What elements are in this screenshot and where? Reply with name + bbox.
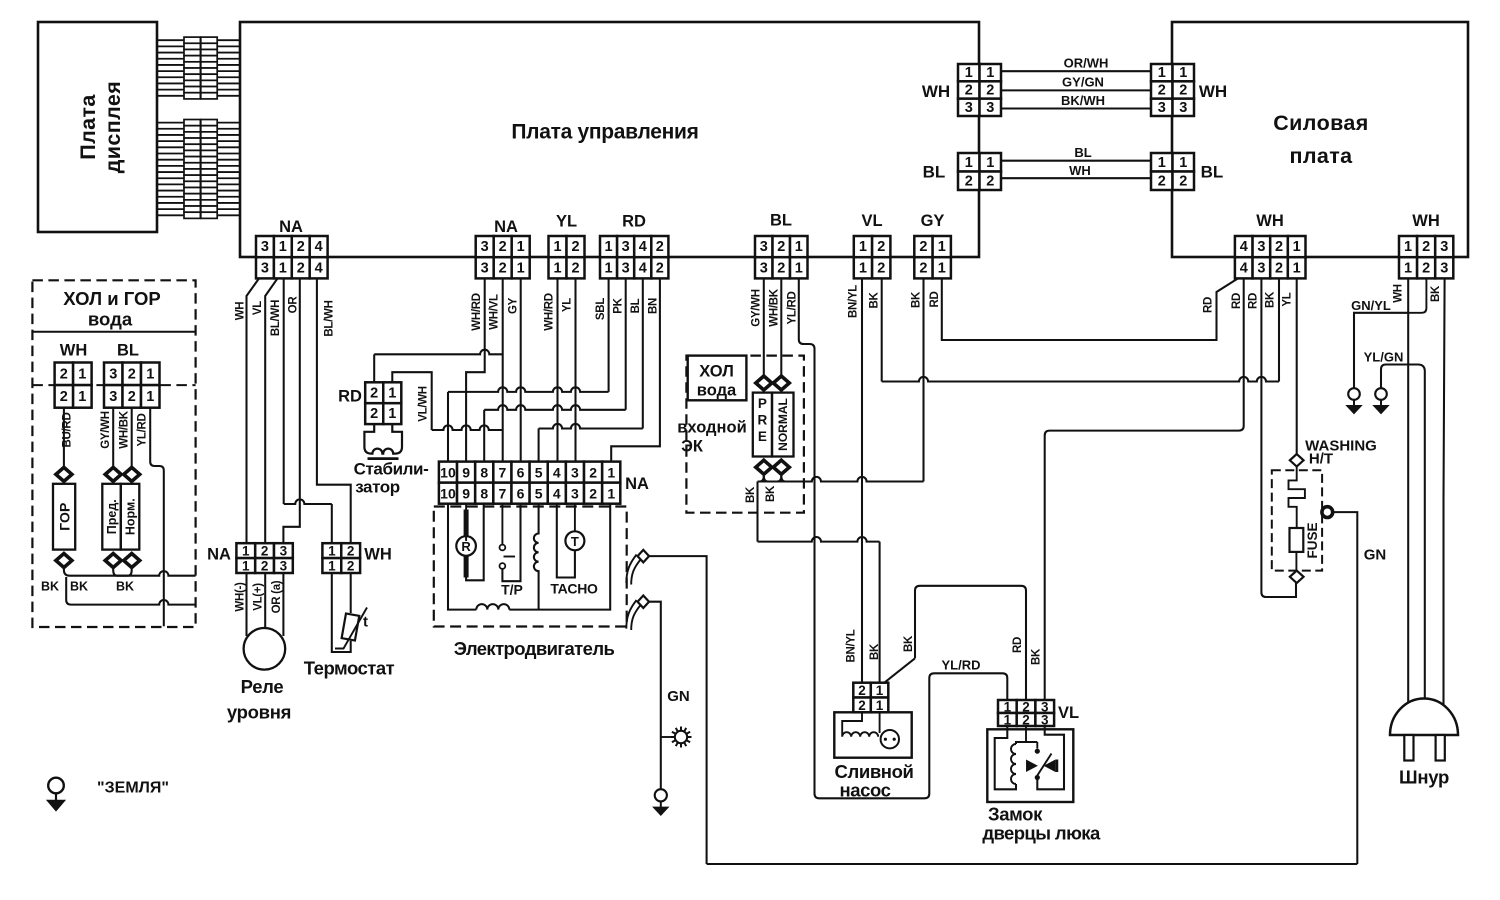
label BL wire bbox=[1074, 145, 1091, 160]
connector WH (control board right edge, 3pin) bbox=[958, 64, 1001, 116]
svg-text:SBL: SBL bbox=[595, 298, 607, 320]
svg-text:3: 3 bbox=[261, 260, 269, 276]
label YL wire bbox=[562, 298, 574, 312]
label RD diag bbox=[1203, 297, 1215, 313]
label PK wire bbox=[613, 297, 625, 313]
svg-text:WH: WH bbox=[364, 546, 392, 564]
svg-text:YL: YL bbox=[562, 298, 574, 312]
svg-text:NA: NA bbox=[279, 218, 303, 236]
label RD door bbox=[1012, 637, 1024, 653]
label GY/WH water bbox=[100, 411, 112, 448]
power board label bbox=[1273, 111, 1369, 168]
wire VL (NA1 pin1 to relay pin2) bbox=[265, 278, 277, 543]
svg-text:1: 1 bbox=[1293, 260, 1301, 276]
label BU/RD bbox=[62, 413, 74, 448]
display board label bbox=[76, 81, 125, 174]
wire BL (RD pin4 bus to motor pin5) bbox=[539, 278, 643, 461]
svg-text:BK/WH: BK/WH bbox=[1061, 93, 1105, 108]
svg-text:1: 1 bbox=[78, 389, 86, 405]
valve NORMAL bbox=[772, 393, 794, 457]
svg-text:1: 1 bbox=[1004, 713, 1012, 728]
door lock box bbox=[987, 729, 1073, 802]
label T/P bbox=[501, 582, 523, 598]
svg-text:2: 2 bbox=[877, 260, 885, 276]
svg-text:WH: WH bbox=[1256, 212, 1284, 230]
svg-text:3: 3 bbox=[1440, 239, 1448, 255]
svg-text:1: 1 bbox=[795, 239, 803, 255]
label WH/VL wire NA2 bbox=[489, 294, 501, 330]
wire YL/RD jog water bbox=[150, 408, 164, 627]
svg-text:1: 1 bbox=[876, 698, 884, 713]
svg-text:RD: RD bbox=[1248, 293, 1260, 309]
wire VL/WH (stab pin1 to motor pin7 bus) bbox=[392, 372, 502, 430]
svg-text:8: 8 bbox=[480, 465, 488, 481]
motor thermal protector T/P bbox=[500, 504, 521, 582]
svg-text:9: 9 bbox=[462, 465, 470, 481]
svg-text:Норм.: Норм. bbox=[124, 498, 138, 535]
svg-text:YL/RD: YL/RD bbox=[137, 413, 149, 446]
svg-text:1: 1 bbox=[876, 683, 884, 698]
svg-text:BN/YL: BN/YL bbox=[846, 629, 858, 662]
connector WH water (pins 2 1) bbox=[55, 363, 92, 408]
label hot/cold water bbox=[63, 288, 160, 330]
svg-text:WH/VL: WH/VL bbox=[489, 294, 501, 330]
svg-text:1: 1 bbox=[986, 65, 994, 81]
svg-text:Стабили-: Стабили- bbox=[354, 460, 429, 479]
wire plug middle bbox=[1408, 365, 1425, 716]
label WH/BK water bbox=[119, 410, 131, 448]
svg-text:1: 1 bbox=[328, 544, 336, 559]
wire YL (YL pin2 to motor pin3) bbox=[574, 278, 576, 461]
wire WH/VL (NA2 pin2 to motor pin7) bbox=[502, 278, 504, 461]
label SBL wire bbox=[595, 298, 607, 320]
label BK water3 bbox=[116, 580, 134, 594]
svg-text:1: 1 bbox=[859, 239, 867, 255]
svg-text:2: 2 bbox=[589, 465, 597, 481]
wire inline2 to GN ground bbox=[649, 602, 661, 790]
label YL/RD wire BL bbox=[787, 291, 799, 324]
label WASHING H/T bbox=[1305, 438, 1377, 468]
motor rotor R with brushes bbox=[456, 504, 483, 581]
svg-text:1: 1 bbox=[388, 385, 396, 401]
svg-text:T/P: T/P bbox=[501, 582, 523, 598]
door lock coil circuit bbox=[995, 726, 1038, 789]
wire RD (power WH pin3 to fuse bottom) bbox=[1261, 278, 1296, 597]
svg-text:WH/BK: WH/BK bbox=[119, 410, 131, 448]
label BL left bbox=[923, 163, 946, 182]
valve diamond PRED bottom bbox=[105, 554, 121, 568]
svg-text:ЭК: ЭК bbox=[681, 438, 704, 456]
label cord bbox=[1399, 767, 1449, 788]
svg-text:YL: YL bbox=[1282, 292, 1294, 306]
valve GOR bbox=[53, 484, 75, 550]
label RD bbox=[622, 213, 646, 231]
svg-text:2: 2 bbox=[571, 260, 579, 276]
svg-text:2: 2 bbox=[60, 389, 68, 405]
svg-text:BK: BK bbox=[903, 635, 915, 652]
connector GY (control board, pins 2 1) bbox=[914, 236, 951, 278]
svg-text:1: 1 bbox=[146, 389, 154, 405]
label GN/YL bbox=[1351, 298, 1391, 313]
svg-text:4: 4 bbox=[639, 239, 647, 255]
svg-text:4: 4 bbox=[553, 486, 561, 502]
wire thermostat loop bbox=[332, 573, 351, 652]
wire YL (power WH pin1 to washing heater) bbox=[1296, 278, 1298, 454]
svg-text:вода: вода bbox=[88, 309, 133, 330]
hot/cold header line bbox=[32, 331, 195, 333]
svg-text:Плата управления: Плата управления bbox=[511, 121, 698, 144]
wire WH/BK to NORM valve bbox=[131, 408, 133, 468]
valve NORM bbox=[121, 484, 140, 550]
svg-text:GY/WH: GY/WH bbox=[100, 411, 112, 448]
svg-text:дисплея: дисплея bbox=[101, 81, 125, 174]
wire BK valves bus to pump pin1 bbox=[758, 482, 880, 683]
svg-text:2: 2 bbox=[261, 544, 269, 559]
svg-text:2: 2 bbox=[656, 239, 664, 255]
wire BL (boards link pin1) bbox=[1001, 160, 1151, 162]
svg-text:2: 2 bbox=[347, 544, 355, 559]
label OR/WH bbox=[1064, 56, 1109, 71]
valve diamond NORMAL bottom bbox=[773, 460, 789, 474]
wire WH/RD (YL pin1 to motor pin4) bbox=[556, 278, 558, 461]
svg-text:WH: WH bbox=[1069, 163, 1091, 178]
svg-text:WH/BK: WH/BK bbox=[769, 288, 781, 326]
label t bbox=[363, 614, 368, 631]
wire WH (boards link pin2) bbox=[1001, 177, 1151, 179]
control board label bbox=[511, 121, 698, 144]
svg-text:2: 2 bbox=[1158, 82, 1166, 98]
svg-text:Реле: Реле bbox=[241, 676, 284, 697]
svg-text:1: 1 bbox=[553, 260, 561, 276]
svg-text:1: 1 bbox=[1158, 155, 1166, 171]
label stabilizer bbox=[354, 460, 429, 497]
label NA motor bbox=[625, 475, 649, 493]
svg-text:ХОЛ: ХОЛ bbox=[699, 363, 734, 381]
motor main winding coil bbox=[534, 504, 539, 610]
wire GY/GN (boards link pin2) bbox=[1001, 89, 1151, 91]
label WH 4321 bbox=[1256, 212, 1284, 230]
svg-text:T: T bbox=[571, 534, 579, 549]
wire BK (power 123 pin3 to plug) bbox=[1444, 278, 1445, 715]
connector BL (power board left edge, 2pin) bbox=[1151, 153, 1194, 190]
hot/cold water dashed box bbox=[32, 280, 195, 627]
svg-text:YL/RD: YL/RD bbox=[942, 658, 981, 673]
svg-text:YL/GN: YL/GN bbox=[1364, 350, 1404, 365]
label WH left bbox=[922, 82, 950, 101]
svg-text:BL: BL bbox=[1074, 145, 1091, 160]
label BN/YL pump bbox=[846, 629, 858, 662]
stabilizer symbol bbox=[364, 424, 402, 459]
wire BK bus2 water bbox=[66, 577, 195, 605]
svg-text:VL: VL bbox=[861, 212, 882, 230]
svg-text:Силовая: Силовая bbox=[1273, 111, 1369, 135]
label thermostat bbox=[304, 658, 395, 679]
svg-text:NORMAL: NORMAL bbox=[776, 398, 790, 451]
label BK top VL bbox=[869, 292, 881, 309]
wire GN to bottom bus bbox=[1333, 512, 1357, 864]
svg-text:насос: насос bbox=[839, 780, 890, 801]
wire relay pin2 stub bbox=[264, 573, 266, 628]
label GY conn bbox=[921, 212, 945, 230]
svg-text:1: 1 bbox=[279, 260, 287, 276]
svg-text:1: 1 bbox=[607, 465, 615, 481]
connector NA1 (control board, pins 3 1 2 4) bbox=[256, 236, 328, 278]
svg-text:3: 3 bbox=[1257, 260, 1265, 276]
label BK valve2 bbox=[765, 485, 777, 502]
valve diamond NORMAL top bbox=[773, 376, 789, 390]
svg-text:3: 3 bbox=[280, 559, 288, 574]
label BK valve1 bbox=[745, 486, 757, 503]
svg-text:BN/YL: BN/YL bbox=[848, 285, 860, 318]
svg-text:3: 3 bbox=[481, 260, 489, 276]
svg-text:NA: NA bbox=[494, 218, 518, 236]
svg-text:BK: BK bbox=[869, 643, 881, 660]
svg-text:3: 3 bbox=[760, 239, 768, 255]
wire YL/GN to ground2 bbox=[1381, 365, 1408, 389]
svg-text:дверцы люка: дверцы люка bbox=[982, 823, 1101, 844]
svg-text:GY: GY bbox=[508, 297, 520, 314]
wire WH (power 123 pin1 to plug) bbox=[1408, 278, 1426, 715]
svg-text:2: 2 bbox=[656, 260, 664, 276]
label TACHO bbox=[550, 581, 598, 597]
label GY wire NA2 bbox=[508, 297, 520, 314]
valve PRE bbox=[753, 393, 772, 457]
svg-text:4: 4 bbox=[1240, 260, 1248, 276]
svg-text:1: 1 bbox=[1158, 65, 1166, 81]
wire BL/WH (NA1 pin4 to thermostat pin2) bbox=[317, 278, 351, 543]
label GY/GN bbox=[1062, 74, 1104, 89]
ground symbol 1 bbox=[1347, 388, 1361, 413]
svg-text:2: 2 bbox=[499, 239, 507, 255]
svg-text:Шнур: Шнур bbox=[1399, 767, 1449, 788]
svg-text:WH: WH bbox=[1199, 82, 1227, 101]
label BL/WH wire NA1b bbox=[324, 300, 336, 336]
label BL/WH wire NA1a bbox=[270, 300, 282, 336]
valve diamond PRE bottom bbox=[756, 460, 772, 474]
svg-text:1: 1 bbox=[146, 366, 154, 382]
svg-text:Термостат: Термостат bbox=[304, 658, 395, 679]
svg-text:3: 3 bbox=[622, 260, 630, 276]
svg-text:Пред.: Пред. bbox=[105, 499, 119, 534]
svg-text:GY/WH: GY/WH bbox=[751, 289, 763, 326]
svg-text:3: 3 bbox=[571, 486, 579, 502]
label BK water1 bbox=[41, 580, 59, 594]
wire BK valves bus to GY pin2 bbox=[758, 278, 924, 481]
connector BL (control board, pins 3 2 1) bbox=[755, 236, 808, 278]
svg-text:WH(-): WH(-) bbox=[235, 582, 247, 612]
connector WH (power board, pins 1 2 3) bbox=[1399, 236, 1453, 278]
valve diamond NORM top bbox=[124, 467, 140, 481]
svg-text:2: 2 bbox=[986, 173, 994, 189]
svg-text:1: 1 bbox=[859, 260, 867, 276]
label RD top GY bbox=[929, 291, 941, 307]
ground symbol motor bbox=[654, 789, 668, 815]
svg-text:1: 1 bbox=[242, 559, 250, 574]
svg-text:4: 4 bbox=[639, 260, 647, 276]
label BL right bbox=[1201, 163, 1224, 182]
svg-text:3: 3 bbox=[1257, 239, 1265, 255]
svg-text:1: 1 bbox=[1404, 239, 1412, 255]
wire BK/WH (boards link pin3) bbox=[1001, 107, 1151, 109]
svg-text:2: 2 bbox=[1422, 239, 1430, 255]
label YL/GN bbox=[1364, 350, 1404, 365]
svg-text:OR/WH: OR/WH bbox=[1064, 56, 1109, 71]
label BL water bbox=[117, 342, 139, 360]
svg-text:3: 3 bbox=[109, 389, 117, 405]
svg-text:BL/WH: BL/WH bbox=[270, 300, 282, 336]
label WH(-) bbox=[235, 582, 247, 612]
svg-text:2: 2 bbox=[919, 260, 927, 276]
wire OR (NA1 pin2 to relay pin3) bbox=[283, 278, 299, 543]
svg-text:1: 1 bbox=[965, 65, 973, 81]
svg-text:Электродвигатель: Электродвигатель bbox=[454, 638, 615, 659]
svg-text:E: E bbox=[758, 429, 767, 444]
label inlet EK bbox=[677, 419, 746, 456]
svg-text:OR: OR bbox=[288, 296, 300, 314]
svg-text:BK: BK bbox=[70, 580, 88, 594]
label BK top GY bbox=[911, 291, 923, 308]
svg-text:1: 1 bbox=[605, 239, 613, 255]
inlet dashed box bbox=[686, 356, 804, 513]
svg-text:2: 2 bbox=[571, 239, 579, 255]
svg-text:2: 2 bbox=[370, 385, 378, 401]
pump coil bbox=[842, 712, 878, 736]
motor housing dashed box bbox=[434, 507, 627, 627]
svg-text:6: 6 bbox=[517, 465, 525, 481]
power board (Силовая плата) bbox=[1172, 22, 1468, 257]
svg-text:2: 2 bbox=[128, 389, 136, 405]
wire SBL (RD pin1 bus to motor pin10) bbox=[448, 278, 609, 461]
wire BK (VL pin2 to power WH pin2) bbox=[882, 278, 1279, 381]
svg-text:3: 3 bbox=[965, 100, 973, 116]
wire PK (RD pin3 bus to motor pin8) bbox=[484, 278, 626, 461]
svg-text:3: 3 bbox=[571, 465, 579, 481]
label BK water2 bbox=[70, 580, 88, 594]
motor tacho generator T bbox=[557, 504, 585, 578]
svg-text:H/T: H/T bbox=[1309, 451, 1333, 468]
svg-text:2: 2 bbox=[1275, 239, 1283, 255]
wire WH/BK to NORMAL bbox=[780, 278, 782, 376]
svg-text:плата: плата bbox=[1289, 144, 1353, 168]
wire BU/RD to GOR valve bbox=[63, 408, 65, 468]
valve diamond PRED top bbox=[105, 467, 121, 481]
svg-text:2: 2 bbox=[589, 486, 597, 502]
svg-text:4: 4 bbox=[315, 260, 323, 276]
label OR(a) bbox=[271, 580, 283, 613]
svg-text:BN: BN bbox=[648, 298, 660, 314]
svg-text:FUSE: FUSE bbox=[1305, 522, 1320, 558]
wire WH (NA1 pin3 to relay pin1) bbox=[247, 278, 260, 543]
svg-text:5: 5 bbox=[535, 465, 543, 481]
valve diamond NORM bottom bbox=[124, 554, 140, 568]
svg-text:10: 10 bbox=[440, 486, 456, 502]
svg-text:BK: BK bbox=[765, 485, 777, 502]
label WH wire bbox=[1069, 163, 1091, 178]
svg-text:RD: RD bbox=[1203, 297, 1215, 313]
svg-text:1: 1 bbox=[938, 260, 946, 276]
svg-text:7: 7 bbox=[498, 486, 506, 502]
svg-text:BK: BK bbox=[869, 292, 881, 309]
label WH/RD wire YL bbox=[544, 293, 556, 330]
svg-text:1: 1 bbox=[795, 260, 803, 276]
connector WH thermostat (pins 1 2) bbox=[322, 543, 360, 573]
washing heater element bbox=[1289, 467, 1305, 529]
svg-text:BK: BK bbox=[745, 486, 757, 503]
label BK pump diag bbox=[903, 635, 915, 652]
svg-text:BK: BK bbox=[41, 580, 59, 594]
connector NA relay (pins 1 2 3) bbox=[236, 543, 292, 573]
svg-text:вода: вода bbox=[697, 382, 737, 400]
wire WH/RD (NA2 pin3 to motor pin9) bbox=[466, 278, 485, 461]
svg-text:WH: WH bbox=[1393, 284, 1405, 303]
wire BN (RD pin2 to motor pin1) bbox=[611, 278, 660, 461]
plug body bbox=[1390, 699, 1458, 761]
svg-text:1: 1 bbox=[328, 559, 336, 574]
wire inline1 to bottom bus bbox=[649, 556, 707, 864]
svg-text:3: 3 bbox=[261, 239, 269, 255]
label WH cord bbox=[1393, 284, 1405, 303]
svg-text:WH: WH bbox=[1412, 212, 1440, 230]
svg-text:2: 2 bbox=[60, 366, 68, 382]
svg-text:2: 2 bbox=[1158, 173, 1166, 189]
svg-text:ХОЛ и ГОР: ХОЛ и ГОР bbox=[63, 288, 160, 309]
label motor bbox=[454, 638, 615, 659]
label BK pump bbox=[869, 643, 881, 660]
label OR wire NA1 bbox=[288, 296, 300, 314]
svg-text:BK: BK bbox=[1430, 285, 1442, 302]
label cold water bbox=[697, 363, 737, 400]
svg-text:PK: PK bbox=[613, 297, 625, 313]
GN terminal ring bbox=[1322, 507, 1333, 518]
label level relay bbox=[227, 676, 291, 723]
svg-text:Замок: Замок bbox=[988, 804, 1043, 825]
svg-text:RD: RD bbox=[929, 291, 941, 307]
svg-text:1: 1 bbox=[965, 155, 973, 171]
washing connector diamond bottom bbox=[1290, 571, 1304, 584]
svg-text:1: 1 bbox=[279, 239, 287, 255]
label VL(+) bbox=[253, 583, 265, 611]
svg-text:4: 4 bbox=[1240, 239, 1248, 255]
gear symbol GN node bbox=[661, 727, 692, 748]
svg-text:8: 8 bbox=[480, 486, 488, 502]
svg-text:BL/WH: BL/WH bbox=[324, 300, 336, 336]
svg-text:3: 3 bbox=[622, 239, 630, 255]
label BL conn bbox=[770, 212, 792, 230]
wire GY/WH to PRED valve bbox=[112, 408, 114, 468]
label VL conn bbox=[861, 212, 882, 230]
label BN wire bbox=[648, 298, 660, 314]
svg-text:2: 2 bbox=[1022, 713, 1030, 728]
svg-text:2: 2 bbox=[858, 698, 866, 713]
svg-text:"ЗЕМЛЯ": "ЗЕМЛЯ" bbox=[97, 780, 169, 797]
svg-text:1: 1 bbox=[986, 155, 994, 171]
svg-text:GN: GN bbox=[667, 688, 690, 705]
svg-text:VL/WH: VL/WH bbox=[418, 386, 430, 422]
svg-text:1: 1 bbox=[78, 366, 86, 382]
svg-text:2: 2 bbox=[877, 239, 885, 255]
label drain pump bbox=[835, 761, 914, 801]
wire BL/WH (NA1 pin1 to thermostat pin1) bbox=[284, 278, 332, 543]
label GN motor bbox=[667, 688, 690, 705]
ribbon cable wires (display to control board) bbox=[157, 40, 240, 215]
svg-text:BK: BK bbox=[1265, 291, 1277, 308]
connector WH (power board, pins 4 3 2 1) bbox=[1235, 236, 1306, 278]
fuse body bbox=[1290, 528, 1304, 571]
wire GN/YL to ground1 bbox=[1354, 313, 1408, 389]
svg-text:2: 2 bbox=[965, 173, 973, 189]
label BK door bbox=[1031, 648, 1043, 665]
svg-text:1: 1 bbox=[1179, 155, 1187, 171]
